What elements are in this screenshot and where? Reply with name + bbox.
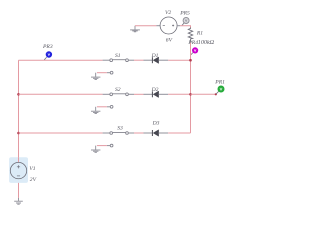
switch S2 pin 1 <box>103 93 110 95</box>
switch S3 pin 1 <box>103 132 110 134</box>
switch S3 <box>110 132 129 135</box>
svg-text:PR5: PR5 <box>179 10 190 16</box>
wire S1 throw to ground <box>97 72 107 74</box>
svg-text:S1: S1 <box>115 53 121 59</box>
probe PR4 <box>191 47 199 55</box>
wire left rail <box>18 60 20 162</box>
svg-text:PR3: PR3 <box>42 44 53 50</box>
junction row2 right <box>189 93 192 96</box>
wire left rail below V1 <box>18 179 20 198</box>
svg-text:V1: V1 <box>29 166 35 172</box>
wire D2 to right rail <box>168 93 190 95</box>
svg-text:V2: V2 <box>165 10 171 16</box>
svg-text:S3: S3 <box>117 125 123 131</box>
wire S2 throw to ground <box>97 106 107 108</box>
wire D3 to right rail <box>168 132 190 134</box>
wire D1 to right rail <box>168 59 190 61</box>
ground GND S3 <box>91 146 100 153</box>
switch S3 pin 2 <box>128 132 134 134</box>
junction row1 right <box>189 59 192 62</box>
wire row3 S3 to D3 <box>134 132 144 134</box>
switch S1 pin 2 <box>128 59 134 61</box>
source V2 pin 1 (negative lead) <box>156 25 160 27</box>
probe PR5 <box>182 18 189 26</box>
diode D2 <box>152 91 158 97</box>
diode D3 pin anode <box>159 132 169 134</box>
wire S3 throw to ground <box>97 145 107 147</box>
junction row3 left <box>17 132 20 135</box>
ground GND S1 <box>91 73 100 80</box>
svg-text:6V: 6V <box>166 38 173 44</box>
ground GND top (left of V2) <box>130 26 140 32</box>
svg-text:PR4: PR4 <box>187 40 198 46</box>
switch S1 pin 1 <box>103 59 110 61</box>
wire right rail R1 to row3 <box>190 43 192 133</box>
switch S1 throw 2 terminal <box>107 71 113 74</box>
switch S3 throw 2 terminal <box>107 144 113 147</box>
wire row2 to PR1 <box>191 93 216 95</box>
node PR1 attach dot <box>215 93 217 95</box>
svg-text:S2: S2 <box>115 87 121 93</box>
source V2 pin 2 (positive lead) <box>177 25 180 27</box>
probe PR3 <box>44 51 52 60</box>
svg-text:D2: D2 <box>151 87 159 93</box>
wire row3 left <box>19 132 103 134</box>
svg-text:2V: 2V <box>30 177 37 183</box>
resistor R1 <box>188 28 192 43</box>
diode D3 <box>152 130 158 136</box>
wire GND to V2 negative <box>135 25 156 27</box>
switch S2 throw 2 terminal <box>107 105 113 108</box>
wire row1 left <box>19 59 103 61</box>
svg-text:R1: R1 <box>196 30 203 36</box>
probe PR1 <box>216 86 224 94</box>
source V2 <box>160 17 177 34</box>
wire row1 S1 to D1 <box>134 59 144 61</box>
svg-text:D1: D1 <box>151 53 159 59</box>
diode D1 <box>152 57 158 63</box>
diode D2 pin anode <box>159 93 169 95</box>
wire through V1 box top <box>18 157 20 162</box>
switch S1 <box>110 59 129 62</box>
diode D1 pin cathode <box>144 59 153 61</box>
svg-text:100kΩ: 100kΩ <box>198 40 215 46</box>
wire row2 S2 to D2 <box>134 93 144 95</box>
source V1 <box>10 162 26 178</box>
ground GND bottom (below V1) <box>14 198 23 204</box>
junction row2 left <box>17 93 20 96</box>
source V1 selection highlight <box>9 157 28 183</box>
switch S2 <box>110 93 129 96</box>
switch S2 pin 2 <box>128 93 134 95</box>
wire V2 positive to R1 <box>180 26 191 28</box>
diode D2 pin cathode <box>144 93 153 95</box>
ground GND S2 <box>91 107 100 114</box>
svg-text:PR1: PR1 <box>214 79 225 85</box>
svg-text:D3: D3 <box>152 121 160 127</box>
wire row2 left <box>19 93 103 95</box>
diode D1 pin anode <box>159 59 169 61</box>
diode D3 pin cathode <box>144 132 153 134</box>
